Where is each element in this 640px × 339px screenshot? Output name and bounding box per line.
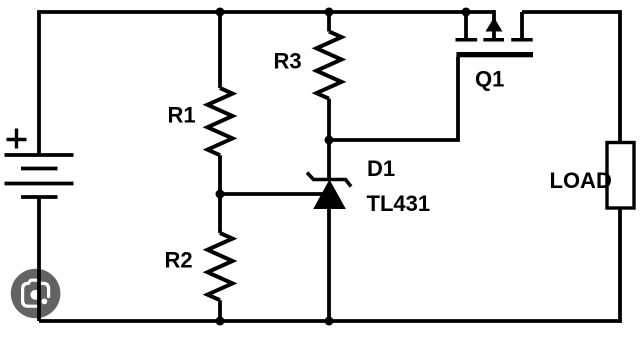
wire: R2 top lead (218, 194, 222, 233)
wire: left rail battery + lead (37, 10, 41, 153)
svg-text:Q1: Q1 (475, 67, 504, 92)
wire: gate feedback from node to Q1 gate (329, 57, 458, 140)
battery BT1 (5, 155, 74, 197)
wire: R1 top lead (218, 12, 222, 88)
resistor R1 (208, 88, 233, 155)
wire: R1 bottom lead to divider node (218, 155, 222, 194)
svg-text:TL431: TL431 (367, 191, 431, 216)
node: R2 to ground rail (216, 317, 225, 326)
svg-text:D1: D1 (367, 156, 395, 181)
resistor R3 (317, 32, 342, 99)
wire: D1 anode lead to bottom rail (327, 208, 331, 321)
wire: R3 top lead (327, 12, 331, 32)
wire: bottom rail (39, 319, 620, 323)
svg-text:LOAD: LOAD (550, 168, 612, 193)
resistor R2 (208, 233, 233, 300)
Google Lens camera icon (11, 269, 61, 319)
zener D1 TL431 (307, 173, 351, 209)
svg-text:R2: R2 (165, 248, 193, 273)
wire: load bottom lead to bottom rail (618, 208, 622, 323)
load resistor box (607, 143, 634, 209)
node: cathode / gate junction (325, 136, 334, 145)
wire: R3 bottom lead to cathode node (327, 99, 331, 140)
+ polarity label (7, 129, 27, 149)
wire: R2 bottom lead (218, 300, 222, 321)
node: R1 top rail junction (216, 8, 225, 17)
svg-text:R1: R1 (168, 103, 196, 128)
node: D1 anode to ground rail (325, 317, 334, 326)
body diode arrow (486, 18, 501, 31)
pin: source lead (464, 12, 468, 40)
node: divider junction R1/R2 (216, 190, 225, 199)
wire: reference lead to TL431 (220, 192, 325, 196)
pin: source contact bar (456, 38, 478, 42)
wire: D1 cathode lead (327, 140, 331, 178)
wire: top right rail from drain (522, 10, 620, 14)
pin: body contact bar (483, 38, 504, 42)
MOSFET Q1 (456, 10, 534, 57)
svg-text:R3: R3 (274, 49, 302, 74)
gate channel bar (456, 52, 533, 57)
wire: battery - lead down to bottom rail (37, 197, 41, 321)
pin: drain contact bar (511, 38, 533, 42)
wire: right rail down to load (618, 10, 622, 142)
wire: top rail from battery + to MOSFET body tap (39, 10, 494, 14)
node: R3 top rail junction (325, 8, 334, 17)
pin: drain lead (520, 12, 524, 40)
wire: body tap from top rail (492, 10, 496, 40)
node: Q1 source rail junction (462, 8, 471, 17)
